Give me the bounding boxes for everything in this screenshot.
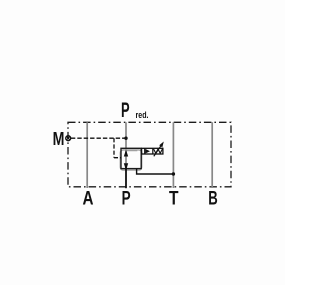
- channel line A: [86, 122, 88, 188]
- channel line B: [211, 122, 213, 188]
- spring box divider 2: [152, 148, 154, 154]
- svg-text:P: P: [121, 98, 130, 122]
- gauge port symbol (circle with cross): [66, 136, 71, 141]
- valve body rounded enclosure (gray): [120, 150, 141, 170]
- svg-text:T: T: [169, 188, 179, 210]
- svg-text:A: A: [83, 188, 94, 210]
- spring box divider 1: [144, 148, 146, 154]
- spring zigzag: [154, 149, 163, 153]
- pilot branch down: [113, 138, 115, 158]
- flow arrow down (exit to P): [124, 163, 128, 170]
- label P red.: [121, 98, 149, 122]
- valve function square: [121, 148, 141, 168]
- svg-text:B: B: [208, 188, 218, 210]
- gray enclosure top segment: [126, 150, 137, 152]
- channel line T: [172, 122, 174, 188]
- pilot line M to P red (dashed): [71, 137, 126, 139]
- svg-text:red.: red.: [136, 110, 149, 120]
- adjustment arrow shaft: [154, 146, 161, 157]
- adjustment arrowhead: [159, 142, 164, 148]
- channel line P / P red.: [125, 122, 127, 170]
- wire: P line below valve (black): [125, 168, 127, 189]
- flow arrow up (inside square): [124, 150, 128, 157]
- sandwich plate outline (dash-dot frame): [68, 122, 231, 187]
- junction dot on P red line: [124, 137, 127, 140]
- junction dot on T line: [172, 172, 175, 175]
- pilot branch to valve: [114, 157, 121, 159]
- solenoid arrow (filled right triangle): [145, 149, 150, 154]
- drain line to T: [137, 169, 174, 174]
- spring box: [142, 148, 163, 154]
- svg-text:P: P: [122, 188, 131, 210]
- svg-text:M: M: [53, 128, 65, 149]
